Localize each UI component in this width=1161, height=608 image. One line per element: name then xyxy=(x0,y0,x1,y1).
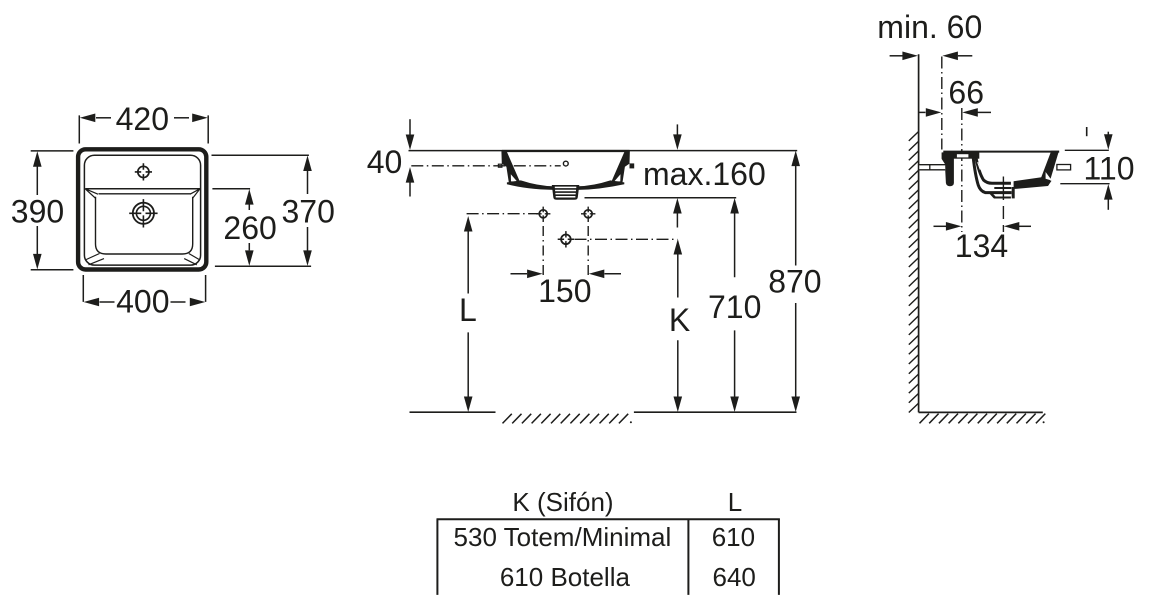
svg-text:66: 66 xyxy=(948,75,984,111)
dimension 66 arrows xyxy=(919,111,926,113)
front basin right wedge and wall xyxy=(612,150,630,182)
corner bevel bottom-right xyxy=(184,254,200,265)
svg-text:K: K xyxy=(669,302,690,338)
right mounting tab xyxy=(1057,165,1071,170)
back wall bevel slash xyxy=(978,162,981,169)
svg-text:390: 390 xyxy=(11,194,64,230)
dimension 400 arrows xyxy=(100,301,115,303)
drain grate bottom bar xyxy=(994,197,1011,199)
drain center dash line xyxy=(1002,177,1004,233)
dimension min60 arrows xyxy=(890,55,903,57)
svg-text:max.160: max.160 xyxy=(643,156,766,192)
svg-text:260: 260 xyxy=(223,210,276,246)
bowl bottom right band xyxy=(1014,177,1052,189)
svg-text:134: 134 xyxy=(955,228,1008,264)
fixing point crosshair right xyxy=(584,210,592,218)
dash-dot to L line xyxy=(467,213,538,215)
overflow hole circle xyxy=(563,161,568,166)
svg-text:610 Botella: 610 Botella xyxy=(500,562,631,592)
svg-text:L: L xyxy=(728,487,742,517)
centerline dash-dot xyxy=(411,165,560,167)
dimension 260 line and arrows xyxy=(248,204,250,250)
870 dimension line xyxy=(795,165,797,397)
drain center crosshair xyxy=(561,235,571,245)
dimension 390 extension lines xyxy=(31,151,74,270)
corner bevel top-right xyxy=(190,189,200,199)
side basin rim line xyxy=(943,151,1059,153)
dimension 150 arrows xyxy=(511,273,528,275)
svg-text:610: 610 xyxy=(712,522,755,552)
dimension 400 extension lines xyxy=(83,275,205,302)
floor hatching xyxy=(920,414,1046,424)
fixing hole notch xyxy=(957,154,969,157)
dimension 390 line and arrows xyxy=(36,167,38,255)
svg-text:40: 40 xyxy=(367,144,403,180)
110 down arrow xyxy=(1107,132,1109,136)
bowl back wall inner curve xyxy=(976,157,1011,183)
wall hatching xyxy=(909,132,919,413)
vertical dash-dot below left crosshair xyxy=(542,221,544,280)
dimension 134 arrows xyxy=(934,225,947,227)
line under basin (max160 reference) xyxy=(585,197,737,199)
vertical dash-dot below right crosshair xyxy=(587,221,589,280)
dimension 260 extension line xyxy=(212,188,250,190)
wall line xyxy=(918,54,920,412)
L dimension line xyxy=(467,231,469,398)
front basin bottom band xyxy=(507,180,624,190)
side basin deck band xyxy=(942,152,980,158)
110 up arrow xyxy=(1107,199,1109,210)
corner bevel top-left xyxy=(85,189,98,199)
drain step xyxy=(991,193,995,197)
dash-dot from drain center to K xyxy=(575,238,678,240)
front basin left bevel notch xyxy=(511,174,517,181)
drain right wall xyxy=(1012,187,1015,198)
dimension 370 line and arrows xyxy=(307,171,309,251)
dimension 420 extension lines xyxy=(79,115,208,143)
svg-text:870: 870 xyxy=(768,264,821,300)
svg-text:640: 640 xyxy=(713,562,756,592)
dimension 370 extension lines xyxy=(212,155,312,266)
top extension line xyxy=(409,150,798,152)
svg-text:530 Totem/Minimal: 530 Totem/Minimal xyxy=(454,522,672,552)
table vertical borders xyxy=(437,519,779,595)
dimension 110 bottom extension xyxy=(1060,183,1109,185)
corner bevel bottom-left xyxy=(85,254,104,265)
svg-text:420: 420 xyxy=(116,101,169,137)
front basin right bevel notch xyxy=(614,174,620,181)
right wall bevel notch xyxy=(1046,172,1052,181)
basin inner rim line xyxy=(84,155,200,265)
ledge line xyxy=(85,188,200,190)
K dimension line xyxy=(677,254,679,398)
faucet hole crosshair xyxy=(138,166,149,177)
drain grate bar 2 xyxy=(994,187,1011,189)
max160 up arrow below xyxy=(676,213,678,228)
drain crosshair xyxy=(133,203,154,224)
dash-dot line (min60) xyxy=(941,57,943,150)
bowl top edge line xyxy=(99,193,191,195)
dimension 40 up arrow xyxy=(409,182,411,197)
svg-text:370: 370 xyxy=(282,193,335,229)
fixing point crosshair left xyxy=(539,210,547,218)
front drain box xyxy=(552,185,580,200)
small tick above xyxy=(1086,127,1088,136)
svg-text:110: 110 xyxy=(1083,151,1134,187)
basin outer rim (thick rounded square) xyxy=(78,149,206,269)
svg-text:400: 400 xyxy=(116,283,169,319)
dimension 40 down arrow xyxy=(409,119,411,136)
max160 down arrow above xyxy=(676,124,678,136)
bowl inner outline xyxy=(96,197,193,254)
svg-text:K (Sifón): K (Sifón) xyxy=(512,487,613,517)
dash-dot line (66 / 134 left) xyxy=(961,108,963,232)
dimension 110 top extension xyxy=(1065,149,1109,151)
table top border xyxy=(437,518,780,520)
ground hatching xyxy=(503,414,629,424)
710 dimension line xyxy=(734,213,736,398)
ground line xyxy=(410,411,797,413)
left mounting tab xyxy=(919,165,945,169)
bowl outer shell curve xyxy=(973,157,1011,192)
svg-text:150: 150 xyxy=(538,273,591,309)
bowl right wall xyxy=(1041,151,1060,186)
svg-text:L: L xyxy=(459,292,477,328)
dimension 420 arrows xyxy=(96,117,111,119)
side basin back flange xyxy=(942,153,954,187)
front basin left wedge and wall xyxy=(501,150,519,182)
front basin rim line xyxy=(502,150,630,152)
front basin right step tab xyxy=(630,163,635,168)
front drain stripes xyxy=(555,187,577,196)
svg-text:min. 60: min. 60 xyxy=(877,9,982,45)
front basin left outer tab xyxy=(498,164,502,167)
floor line xyxy=(919,411,1043,413)
svg-text:710: 710 xyxy=(708,289,761,325)
